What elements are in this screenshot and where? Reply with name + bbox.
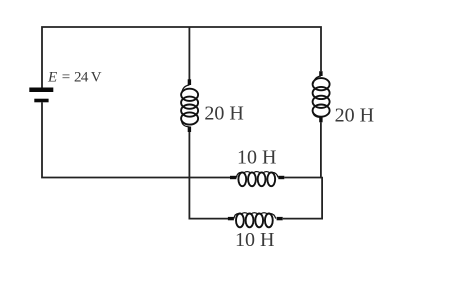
svg-text:E=24V: E=24V — [47, 69, 102, 85]
svg-text:20 H: 20 H — [204, 102, 243, 124]
svg-text:10 H: 10 H — [237, 146, 276, 168]
svg-text:10 H: 10 H — [235, 229, 274, 251]
svg-text:20 H: 20 H — [335, 104, 374, 126]
